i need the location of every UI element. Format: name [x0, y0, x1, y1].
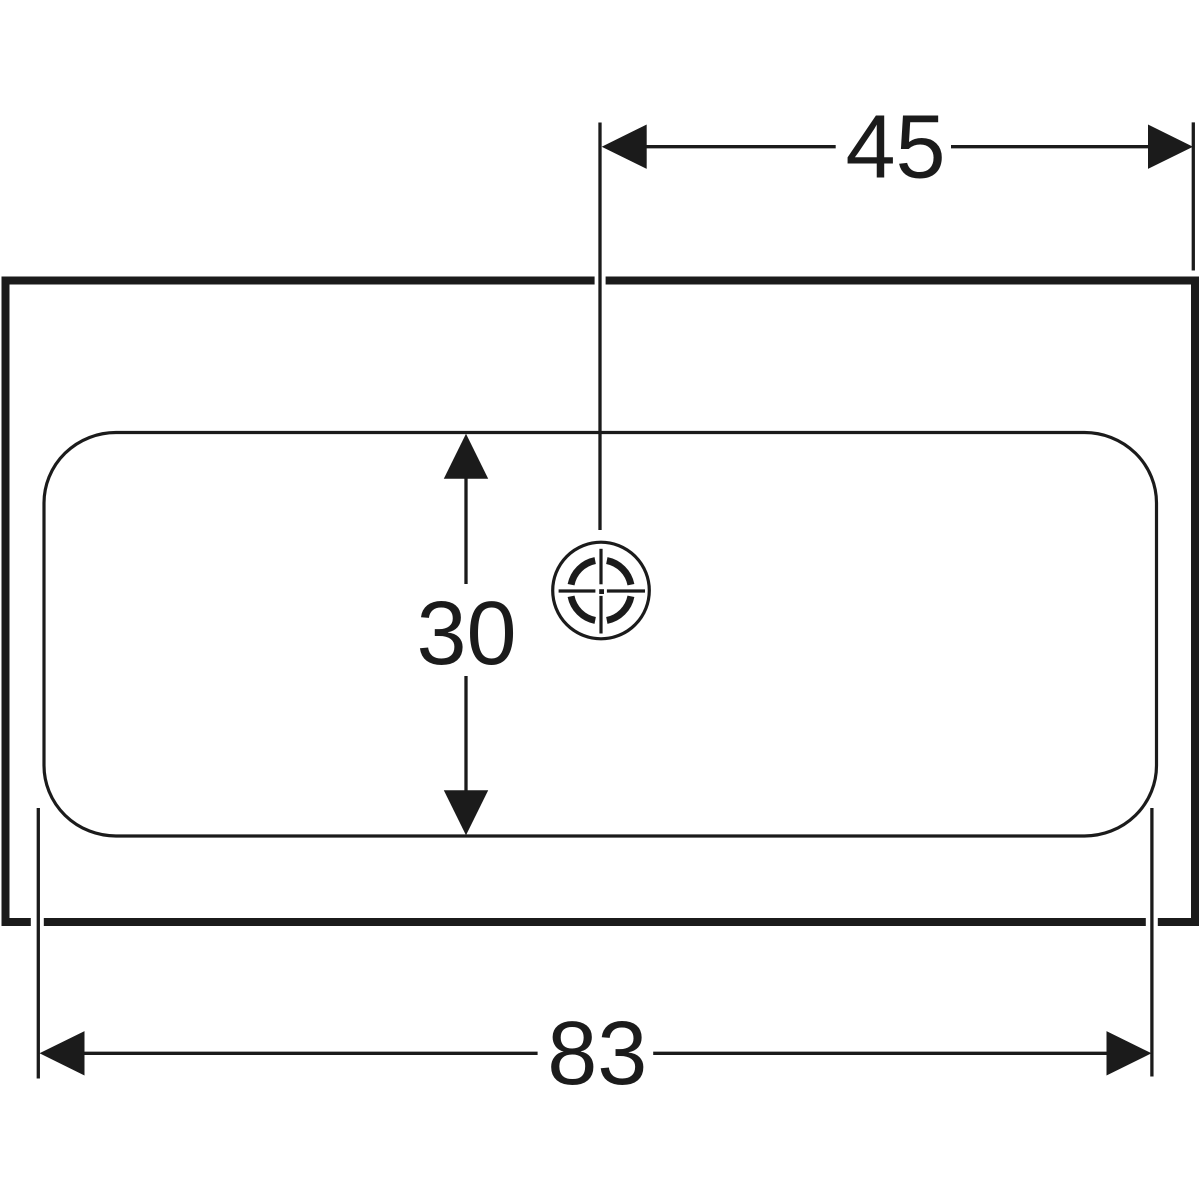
svg-text:45: 45: [845, 98, 945, 198]
dimension 83: left extension line: [37, 808, 40, 1079]
drain mark outer circle: [553, 542, 650, 639]
dimension 83: line left segment: [83, 1052, 538, 1055]
tap-hole leader line (vertical, from 45 dim to drain): [598, 123, 601, 531]
drain mark thick ring arc (top-left): [571, 561, 595, 585]
drain centerline vertical upper segment: [599, 549, 602, 585]
drain mark thick ring arc (top-right): [607, 561, 631, 585]
dimension 83: right extension line: [1150, 808, 1153, 1077]
dimension 83: line right segment: [653, 1052, 1108, 1055]
dimension 83: left arrowhead: [40, 1031, 85, 1075]
dimension 45: line left segment: [645, 145, 836, 148]
drain center dash dot: [599, 589, 604, 594]
dimension 30: top arrowhead: [444, 434, 488, 479]
drain centerline horizontal right segment: [607, 589, 645, 592]
washbasin outer outline (ceramic edge): [6, 281, 1196, 923]
drain mark thick ring arc (bottom-right): [607, 596, 631, 620]
dimension 45: left arrowhead: [602, 125, 647, 169]
basin bowl outline (rounded rect): [44, 433, 1157, 837]
dimension 45: line right segment: [951, 145, 1149, 148]
halo gap in bottom edge for left extension line: [31, 915, 44, 929]
svg-text:83: 83: [547, 1004, 647, 1104]
dimension 30: line lower segment: [464, 676, 467, 792]
drain mark thick ring arc (bottom-left): [571, 596, 595, 620]
drain centerline horizontal left segment: [559, 589, 596, 592]
dimension 45: right extension line: [1192, 122, 1195, 270]
halo gap in bottom edge for right extension line: [1146, 915, 1158, 929]
dimension 30: bottom arrowhead: [444, 790, 488, 835]
halo gap in top edge for tap-hole leader line: [595, 274, 606, 288]
dimension 30: line upper segment: [464, 477, 467, 584]
drain centerline vertical lower segment: [599, 596, 602, 634]
dimension 83: right arrowhead: [1107, 1031, 1152, 1075]
svg-text:30: 30: [416, 584, 516, 684]
dimension 45: right arrowhead: [1148, 125, 1193, 169]
